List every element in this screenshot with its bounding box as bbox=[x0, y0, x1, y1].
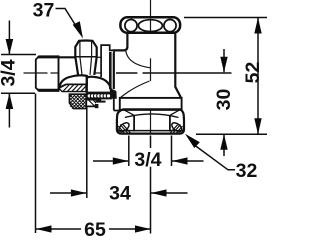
nut corner hatch left bbox=[118, 125, 130, 134]
svg-text:32: 32 bbox=[236, 160, 258, 182]
svg-text:3/4: 3/4 bbox=[0, 59, 20, 86]
hatch band under dome bbox=[59, 85, 86, 92]
wire vertical extension x=86.8 bbox=[86, 107, 88, 198]
sub-knurl hatched band bbox=[86, 100, 100, 107]
flange collar bbox=[120, 98, 182, 110]
nut face division lines bbox=[133, 115, 135, 131]
dome right bbox=[87, 77, 111, 93]
cap centerline bbox=[150, 0, 152, 18]
wire vertical extension x=128.8 bbox=[128, 136, 130, 167]
dimension 3/4 left (rotated) bbox=[0, 21, 20, 128]
dimension 34 bbox=[50, 183, 188, 205]
label 32 with leader bbox=[185, 134, 257, 182]
dome left bbox=[59, 75, 87, 87]
body right outline bbox=[175, 33, 181, 98]
wire left extension lines bbox=[1, 54, 36, 56]
tower (knurled ring side) bbox=[101, 45, 114, 77]
step piece to flange bbox=[95, 94, 121, 111]
svg-text:34: 34 bbox=[109, 183, 131, 205]
wire vertical extension x=171.5 bbox=[171, 136, 173, 167]
node inlet axis centerline left bbox=[24, 72, 59, 74]
wire vertical extension x=35.5 bbox=[35, 94, 37, 234]
nut chamfer diagonals bbox=[123, 109, 181, 115]
union nut outline bbox=[117, 109, 184, 133]
wire vertical axis extension x=150.5 bbox=[150, 136, 152, 234]
nut middle face arc bbox=[125, 114, 179, 118]
dimension 3/4 bottom bbox=[93, 149, 204, 171]
junction dark blob bbox=[111, 89, 117, 99]
cap right circle bbox=[164, 20, 176, 32]
valve vertical body fill bbox=[114, 33, 182, 98]
svg-text:30: 30 bbox=[213, 89, 235, 111]
body interior fillet arcs bbox=[126, 51, 151, 68]
cap left circle bbox=[125, 20, 137, 32]
dimension 30 bbox=[213, 49, 235, 156]
cap center ellipse bbox=[138, 20, 162, 32]
svg-text:52: 52 bbox=[242, 62, 264, 84]
nut corner leaf right bbox=[170, 121, 183, 133]
nut bottom band bbox=[118, 130, 184, 132]
nut corner hatch right bbox=[171, 125, 183, 134]
svg-text:65: 65 bbox=[84, 219, 106, 241]
wire horizontal extension line y=73 to 30-dim (right part) bbox=[176, 72, 232, 74]
label 37 with leader bbox=[33, 0, 83, 39]
knurl dark band bbox=[86, 92, 112, 99]
body left outline bbox=[114, 33, 128, 89]
tower right edge thick bbox=[109, 52, 112, 89]
nut corner leaf left bbox=[117, 121, 130, 133]
bonnet mid line bbox=[75, 56, 96, 58]
svg-text:37: 37 bbox=[33, 0, 55, 22]
dimension 52 bbox=[242, 18, 264, 135]
cap handle bbox=[120, 17, 180, 33]
node inlet axis centerline tick at tower gap bbox=[95, 72, 101, 74]
svg-text:3/4: 3/4 bbox=[134, 149, 161, 171]
crosshatch block bbox=[69, 94, 86, 108]
node inlet axis centerline inside body bbox=[116, 72, 176, 74]
dimension 65 bbox=[36, 219, 151, 241]
body vertical centerline bbox=[150, 58, 152, 81]
wire bottom extension line y=134.3 bbox=[196, 133, 267, 135]
bonnet facets bbox=[80, 41, 92, 75]
nut centerline bbox=[150, 109, 152, 133]
bonnet 37 bbox=[75, 41, 96, 76]
thread block bbox=[36, 56, 59, 91]
inlet tube top edge bbox=[59, 56, 76, 58]
wire top extension line y=17.5 bbox=[184, 17, 267, 19]
knurl circles bbox=[87, 94, 111, 98]
